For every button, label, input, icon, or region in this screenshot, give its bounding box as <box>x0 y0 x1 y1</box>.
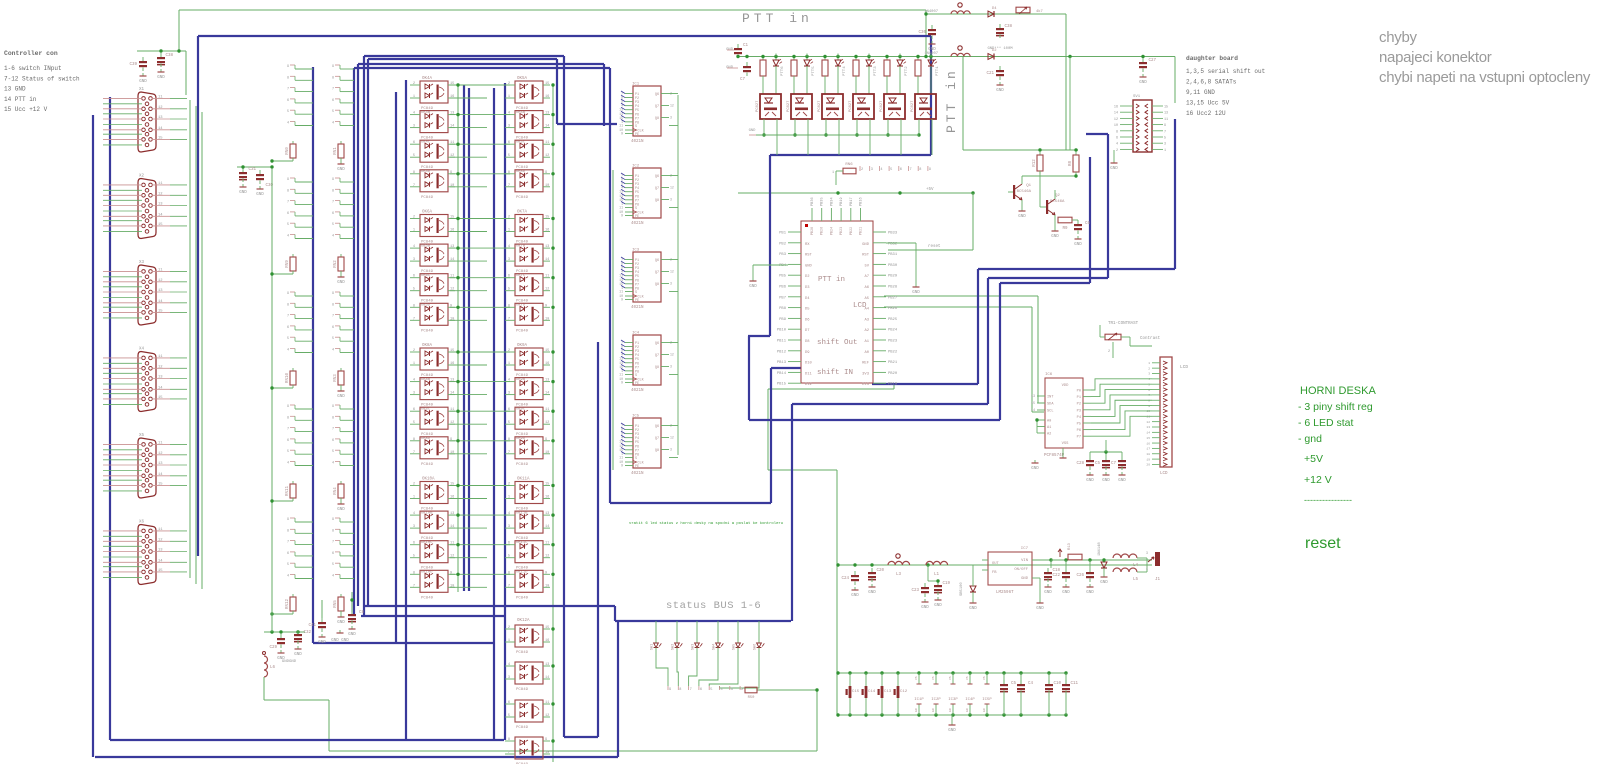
svg-text:GND: GND <box>318 641 326 645</box>
svg-text:12: 12 <box>545 288 549 292</box>
svg-text:GND: GND <box>348 633 356 637</box>
svg-text:7: 7 <box>413 317 415 321</box>
svg-text:9: 9 <box>621 214 623 218</box>
svg-text:1: 1 <box>413 229 415 233</box>
svg-text:13: 13 <box>1164 112 1168 116</box>
svg-text:7: 7 <box>508 317 510 321</box>
svg-text:C5: C5 <box>1095 462 1101 466</box>
svg-text:LCD: LCD <box>1180 364 1188 370</box>
svg-text:10: 10 <box>545 584 549 588</box>
svg-text:4: 4 <box>721 688 723 692</box>
svg-text:7: 7 <box>508 451 510 455</box>
svg-text:3: 3 <box>508 525 510 529</box>
svg-text:LCD: LCD <box>853 302 867 310</box>
svg-text:13: 13 <box>545 663 549 667</box>
svg-text:3: 3 <box>670 365 672 369</box>
svg-text:Q7: Q7 <box>655 271 659 275</box>
svg-text:PTT in: PTT in <box>742 11 813 26</box>
svg-text:C41: C41 <box>308 624 316 628</box>
svg-text:Q7: Q7 <box>655 354 659 358</box>
svg-text:X2: X2 <box>139 175 145 179</box>
svg-text:C32: C32 <box>303 631 311 635</box>
svg-text:R13: R13 <box>1068 542 1072 550</box>
svg-text:PB11: PB11 <box>777 340 787 344</box>
svg-text:5: 5 <box>1164 137 1166 141</box>
svg-text:8: 8 <box>332 529 334 533</box>
svg-text:- 6 LED stat: - 6 LED stat <box>1298 417 1354 429</box>
svg-text:P3: P3 <box>1077 409 1081 413</box>
svg-text:6: 6 <box>1116 137 1118 141</box>
svg-text:PC849: PC849 <box>421 196 434 200</box>
svg-text:PC827: PC827 <box>911 101 915 112</box>
svg-text:18: 18 <box>1146 453 1150 456</box>
svg-text:Q6: Q6 <box>655 425 659 429</box>
svg-text:15: 15 <box>545 626 549 630</box>
svg-text:- 3 piny shift reg: - 3 piny shift reg <box>1298 401 1373 413</box>
svg-text:11: 11 <box>545 408 549 412</box>
svg-text:8: 8 <box>287 529 289 533</box>
svg-text:D9: D9 <box>805 351 810 355</box>
svg-text:2: 2 <box>741 688 743 692</box>
svg-text:Q7: Q7 <box>655 437 659 441</box>
svg-text:D2: D2 <box>992 49 997 53</box>
svg-text:1: 1 <box>413 362 415 366</box>
svg-text:7: 7 <box>508 751 510 755</box>
svg-text:PB29: PB29 <box>888 275 898 279</box>
svg-text:14: 14 <box>545 125 549 129</box>
svg-text:PB2: PB2 <box>779 242 787 246</box>
svg-text:7: 7 <box>413 451 415 455</box>
svg-text:14: 14 <box>158 127 163 131</box>
svg-text:3: 3 <box>413 258 415 262</box>
svg-text:PB36: PB36 <box>811 197 815 206</box>
svg-text:13: 13 <box>158 203 163 207</box>
svg-text:8: 8 <box>287 416 289 420</box>
svg-text:PB21: PB21 <box>860 227 864 235</box>
svg-text:14: 14 <box>1146 432 1150 435</box>
svg-text:8: 8 <box>919 168 921 172</box>
svg-text:9: 9 <box>332 405 334 409</box>
svg-text:15: 15 <box>545 349 549 353</box>
svg-text:12: 12 <box>670 353 674 357</box>
svg-text:C7: C7 <box>740 78 746 82</box>
svg-text:GND: GND <box>868 591 876 595</box>
svg-text:14: 14 <box>158 473 163 477</box>
svg-text:14: 14 <box>158 559 163 563</box>
svg-text:1: 1 <box>508 362 510 366</box>
svg-text:GN: GN <box>966 708 969 712</box>
svg-text:SW2: SW2 <box>672 644 676 650</box>
svg-text:4k7: 4k7 <box>1036 9 1043 14</box>
svg-text:Q6: Q6 <box>655 342 659 346</box>
svg-text:PTT5: PTT5 <box>812 66 816 76</box>
svg-text:R50: R50 <box>748 696 756 700</box>
svg-text:3: 3 <box>670 282 672 286</box>
svg-text:16 Ucc2 12U: 16 Ucc2 12U <box>1186 110 1226 117</box>
svg-text:SCL: SCL <box>1047 410 1053 414</box>
svg-text:16: 16 <box>545 639 549 643</box>
svg-text:9: 9 <box>287 405 289 409</box>
svg-text:Q6: Q6 <box>655 175 659 179</box>
svg-text:5: 5 <box>508 288 510 292</box>
svg-text:C39: C39 <box>129 63 137 67</box>
svg-text:Q6: Q6 <box>655 259 659 263</box>
svg-text:GND: GND <box>1100 581 1108 585</box>
svg-text:A1: A1 <box>1047 426 1051 430</box>
svg-text:4: 4 <box>880 168 882 172</box>
svg-text:RN0: RN0 <box>286 147 290 155</box>
svg-text:1: 1 <box>508 229 510 233</box>
svg-text:D12: D12 <box>805 383 813 387</box>
svg-text:9: 9 <box>621 132 623 136</box>
svg-text:Q7: Q7 <box>655 187 659 191</box>
svg-text:PB15: PB15 <box>777 383 787 387</box>
svg-text:9: 9 <box>669 688 671 692</box>
svg-text:reset: reset <box>928 245 941 249</box>
svg-text:SW1: SW1 <box>651 644 655 650</box>
svg-text:BC546A: BC546A <box>1017 190 1032 194</box>
svg-text:12: 12 <box>1146 421 1150 424</box>
svg-text:PC849: PC849 <box>516 596 529 600</box>
svg-text:P5: P5 <box>1077 423 1081 427</box>
svg-text:6: 6 <box>413 141 415 145</box>
svg-text:15: 15 <box>158 136 163 140</box>
svg-text:11: 11 <box>158 528 163 532</box>
svg-text:C26: C26 <box>1076 574 1084 578</box>
svg-text:IC5P: IC5P <box>982 698 992 702</box>
svg-text:VSS: VSS <box>1062 442 1070 446</box>
svg-text:6: 6 <box>287 212 289 216</box>
svg-text:PB23: PB23 <box>840 227 844 235</box>
svg-text:L4: L4 <box>1133 564 1139 568</box>
svg-text:PB14: PB14 <box>777 372 787 376</box>
svg-text:ON/OFF: ON/OFF <box>1014 567 1028 572</box>
svg-text:5: 5 <box>287 110 289 114</box>
svg-text:PB10: PB10 <box>777 329 787 333</box>
svg-text:3: 3 <box>670 198 672 202</box>
svg-text:2: 2 <box>861 168 863 172</box>
svg-text:C29: C29 <box>269 646 277 650</box>
svg-text:4021N: 4021N <box>631 222 644 226</box>
svg-text:8: 8 <box>508 738 510 742</box>
svg-text:PTT1: PTT1 <box>936 66 940 76</box>
svg-text:S: S <box>635 125 637 129</box>
svg-text:GND: GND <box>337 281 345 285</box>
svg-text:13: 13 <box>158 289 163 293</box>
svg-text:11: 11 <box>158 355 163 359</box>
svg-text:7-12 Status of switch: 7-12 Status of switch <box>4 75 80 82</box>
svg-text:PB8: PB8 <box>779 307 787 311</box>
svg-text:4: 4 <box>287 349 289 353</box>
svg-text:16: 16 <box>545 496 549 500</box>
svg-text:P1: P1 <box>1077 396 1081 400</box>
svg-text:PB34: PB34 <box>830 197 834 206</box>
svg-text:C7: C7 <box>1111 462 1117 466</box>
svg-text:OK4A: OK4A <box>422 77 433 81</box>
svg-text:14 PTT in: 14 PTT in <box>4 96 37 103</box>
svg-text:OK12A: OK12A <box>517 619 530 623</box>
svg-text:7: 7 <box>1164 130 1166 134</box>
svg-text:13: 13 <box>1146 426 1150 429</box>
svg-text:PB26: PB26 <box>888 307 898 311</box>
svg-text:12: 12 <box>545 154 549 158</box>
svg-text:5: 5 <box>413 555 415 559</box>
svg-text:6: 6 <box>332 99 334 103</box>
svg-text:7: 7 <box>690 688 692 692</box>
svg-text:GND: GND <box>1031 467 1039 471</box>
svg-text:15: 15 <box>158 482 163 486</box>
svg-text:15: 15 <box>158 396 163 400</box>
svg-text:PB19: PB19 <box>888 383 898 387</box>
svg-text:15: 15 <box>1031 401 1035 405</box>
svg-text:12: 12 <box>158 365 163 369</box>
svg-text:Q2: Q2 <box>1055 194 1060 198</box>
svg-text:2: 2 <box>508 626 510 630</box>
svg-text:C19: C19 <box>942 582 950 586</box>
svg-text:P2: P2 <box>1077 403 1081 407</box>
svg-text:PC827: PC827 <box>756 101 760 112</box>
svg-text:GND: GND <box>1036 607 1044 611</box>
svg-text:3: 3 <box>1164 143 1166 147</box>
svg-text:13,15 Ucc 5V: 13,15 Ucc 5V <box>1186 100 1230 107</box>
svg-text:15: 15 <box>545 483 549 487</box>
svg-text:D6: D6 <box>805 318 810 322</box>
svg-text:3: 3 <box>670 448 672 452</box>
svg-text:15: 15 <box>158 223 163 227</box>
svg-text:8: 8 <box>413 171 415 175</box>
svg-text:PB31: PB31 <box>888 253 898 257</box>
svg-text:C22: C22 <box>1052 574 1060 578</box>
svg-text:4: 4 <box>1116 143 1118 147</box>
svg-text:PC849: PC849 <box>516 329 529 333</box>
svg-text:GND: GND <box>1118 479 1126 483</box>
svg-text:15 Ucc +12 V: 15 Ucc +12 V <box>4 106 48 113</box>
svg-text:GND: GND <box>139 80 147 84</box>
svg-text:9: 9 <box>1164 124 1166 128</box>
svg-text:5: 5 <box>287 223 289 227</box>
svg-text:12: 12 <box>158 279 163 283</box>
svg-text:IC7: IC7 <box>1021 547 1029 551</box>
svg-text:OK11A: OK11A <box>517 478 530 482</box>
svg-text:SW6: SW6 <box>754 644 758 650</box>
svg-text:A7: A7 <box>864 275 869 279</box>
svg-text:3: 3 <box>413 525 415 529</box>
svg-text:15: 15 <box>158 569 163 573</box>
svg-text:D7: D7 <box>805 329 810 333</box>
svg-text:FB: FB <box>992 571 997 575</box>
svg-text:S: S <box>635 457 637 461</box>
svg-text:8: 8 <box>1116 130 1118 134</box>
svg-text:13: 13 <box>158 376 163 380</box>
svg-text:9: 9 <box>287 518 289 522</box>
svg-text:4: 4 <box>413 112 415 116</box>
svg-text:15: 15 <box>1164 106 1168 110</box>
svg-text:GND: GND <box>1139 81 1147 85</box>
svg-text:6: 6 <box>700 688 702 692</box>
svg-text:14: 14 <box>545 525 549 529</box>
svg-text:C1: C1 <box>743 44 749 48</box>
svg-text:S: S <box>635 291 637 295</box>
svg-text:14: 14 <box>1031 408 1035 412</box>
svg-text:7: 7 <box>910 168 912 172</box>
svg-text:C21: C21 <box>986 72 994 76</box>
svg-text:GND: GND <box>948 729 956 733</box>
svg-text:15: 15 <box>1146 437 1150 440</box>
svg-text:7: 7 <box>287 88 289 92</box>
svg-text:----------------: ---------------- <box>1304 495 1352 505</box>
svg-text:SB5100: SB5100 <box>960 582 964 596</box>
svg-text:L3: L3 <box>896 573 902 577</box>
svg-text:P7: P7 <box>1077 436 1081 440</box>
svg-text:16: 16 <box>1114 106 1118 110</box>
svg-text:D8: D8 <box>805 340 810 344</box>
svg-text:+12 V: +12 V <box>1304 474 1332 486</box>
svg-text:4: 4 <box>332 122 334 126</box>
svg-text:1: 1 <box>413 496 415 500</box>
svg-text:shift Out: shift Out <box>817 339 858 347</box>
svg-text:9: 9 <box>332 518 334 522</box>
svg-text:14: 14 <box>545 676 549 680</box>
svg-text:2: 2 <box>1148 367 1150 370</box>
svg-text:GND: GND <box>749 285 757 289</box>
svg-text:PB21: PB21 <box>888 361 898 365</box>
svg-text:17: 17 <box>1146 448 1150 451</box>
svg-text:reset: reset <box>1305 535 1341 552</box>
svg-text:11: 11 <box>158 268 163 272</box>
svg-text:8: 8 <box>332 76 334 80</box>
svg-text:PB33: PB33 <box>888 232 898 236</box>
svg-text:PB17: PB17 <box>850 197 854 206</box>
svg-text:PTT in: PTT in <box>944 68 959 133</box>
svg-text:6: 6 <box>900 168 902 172</box>
svg-text:PB12: PB12 <box>777 350 787 354</box>
svg-text:TR1-CONTRAST: TR1-CONTRAST <box>1108 322 1139 326</box>
svg-text:4: 4 <box>287 122 289 126</box>
svg-text:4: 4 <box>413 379 415 383</box>
svg-text:C20: C20 <box>876 569 884 573</box>
svg-text:1-6 switch INput: 1-6 switch INput <box>4 65 62 72</box>
svg-text:5: 5 <box>332 110 334 114</box>
svg-text:VS: VS <box>966 676 969 680</box>
svg-text:12: 12 <box>670 186 674 190</box>
svg-text:4: 4 <box>508 663 510 667</box>
svg-text:PC827: PC827 <box>880 101 884 112</box>
svg-text:PE: PE <box>635 299 639 303</box>
svg-text:S: S <box>635 374 637 378</box>
svg-text:Q8: Q8 <box>655 366 659 370</box>
svg-text:PC849: PC849 <box>516 651 529 655</box>
svg-text:6: 6 <box>332 552 334 556</box>
svg-text:11: 11 <box>158 441 163 445</box>
svg-text:5: 5 <box>332 563 334 567</box>
svg-text:14: 14 <box>158 300 163 304</box>
svg-text:11: 11 <box>545 701 549 705</box>
svg-text:4: 4 <box>413 512 415 516</box>
svg-text:GND: GND <box>239 191 247 195</box>
svg-text:6: 6 <box>332 326 334 330</box>
svg-text:A1: A1 <box>864 340 869 344</box>
svg-text:5: 5 <box>508 154 510 158</box>
svg-text:12: 12 <box>670 104 674 108</box>
svg-text:SW3: SW3 <box>692 644 696 650</box>
svg-text:3: 3 <box>413 125 415 129</box>
svg-text:9: 9 <box>332 65 334 69</box>
svg-text:GND: GND <box>862 243 870 247</box>
svg-text:4021N: 4021N <box>631 140 644 144</box>
svg-text:PTT in: PTT in <box>818 276 845 284</box>
svg-text:GN: GN <box>949 708 952 712</box>
svg-text:3: 3 <box>1146 551 1148 555</box>
svg-text:14: 14 <box>545 258 549 262</box>
svg-text:4: 4 <box>287 462 289 466</box>
svg-text:Q6: Q6 <box>655 93 659 97</box>
svg-text:IC1: IC1 <box>632 83 640 87</box>
svg-text:PB20: PB20 <box>888 372 898 376</box>
svg-text:PB35: PB35 <box>821 197 825 206</box>
svg-text:PB13: PB13 <box>777 361 787 365</box>
svg-text:GND: GND <box>996 89 1004 93</box>
svg-text:C27: C27 <box>1148 59 1156 63</box>
svg-text:19: 19 <box>1146 458 1150 461</box>
svg-text:RN12: RN12 <box>286 598 290 609</box>
svg-text:13: 13 <box>158 462 163 466</box>
svg-text:GN: GN <box>915 708 918 712</box>
svg-text:2: 2 <box>413 82 415 86</box>
svg-text:9: 9 <box>287 178 289 182</box>
svg-text:D3: D3 <box>805 286 810 290</box>
svg-text:7: 7 <box>413 184 415 188</box>
svg-text:PTT2: PTT2 <box>905 66 909 76</box>
svg-text:X5: X5 <box>139 434 145 438</box>
svg-text:A3: A3 <box>864 318 869 322</box>
svg-text:P6: P6 <box>1077 429 1081 433</box>
svg-text:10: 10 <box>1114 124 1118 128</box>
svg-text:6: 6 <box>287 99 289 103</box>
svg-text:1: 1 <box>1146 567 1148 571</box>
svg-text:PC849: PC849 <box>516 463 529 467</box>
svg-text:5: 5 <box>413 288 415 292</box>
svg-text:OK9A: OK9A <box>517 344 528 348</box>
svg-text:11: 11 <box>1164 118 1168 122</box>
svg-text:A2: A2 <box>864 329 869 333</box>
svg-text:PE: PE <box>635 465 639 469</box>
svg-text:REF: REF <box>862 362 870 366</box>
svg-text:3: 3 <box>508 676 510 680</box>
svg-text:C11: C11 <box>1070 682 1078 686</box>
svg-text:X6: X6 <box>139 521 145 525</box>
svg-text:PB22: PB22 <box>850 227 854 235</box>
svg-text:D5: D5 <box>805 308 810 312</box>
svg-text:GND: GND <box>1044 591 1052 595</box>
svg-text:8: 8 <box>287 76 289 80</box>
svg-text:PB9: PB9 <box>779 318 787 322</box>
svg-text:S: S <box>635 207 637 211</box>
svg-text:PB25: PB25 <box>888 318 898 322</box>
svg-text:RN4: RN4 <box>334 487 338 495</box>
svg-text:Q1: Q1 <box>1026 184 1031 188</box>
svg-text:GND: GND <box>1086 591 1094 595</box>
svg-text:- gnd: - gnd <box>1298 433 1322 445</box>
svg-text:RST: RST <box>862 254 870 258</box>
svg-text:9: 9 <box>621 298 623 302</box>
svg-text:8: 8 <box>332 303 334 307</box>
svg-text:14: 14 <box>545 392 549 396</box>
svg-text:5V: 5V <box>864 264 869 268</box>
svg-text:3: 3 <box>508 392 510 396</box>
svg-text:C23: C23 <box>911 589 919 593</box>
svg-text:GND: GND <box>1018 215 1026 219</box>
svg-text:IC2: IC2 <box>632 165 640 169</box>
